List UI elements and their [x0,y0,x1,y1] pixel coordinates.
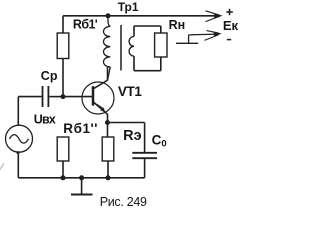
node under Rb1'' [61,175,66,180]
svg-text:Рис. 249: Рис. 249 [100,195,147,209]
svg-text:Ек: Ек [223,18,239,33]
resistor Rb1' (upper base divider) [57,16,69,97]
node top rail / transformer primary junction [106,13,111,18]
node base junction [61,94,66,99]
node emitter junction [105,120,110,125]
svg-text:Rб1': Rб1' [73,18,98,32]
transformer Tr1 primary winding [103,16,110,81]
resistor Rn (load) with loop [134,26,167,71]
node ground stem [79,175,84,180]
capacitor Cp (input coupling) [18,86,63,107]
wire top supply rail [63,15,217,17]
arrow -Ek (bottom supply arrow) [176,31,222,44]
svg-text:Тр1: Тр1 [118,0,139,14]
minus sign - [227,39,231,41]
resistor Re (emitter) [102,123,114,178]
wire bottom rail [18,177,144,179]
transformer core [120,25,122,71]
arrow +Ek (top supply arrow head) [206,11,223,22]
svg-text:Ср: Ср [41,69,58,83]
plus sign + [226,9,233,15]
node under Re [106,175,111,180]
svg-text:Rн: Rн [169,18,186,32]
AC source Uvx (input generator) [6,97,33,178]
capacitor C0 (emitter bypass) [108,123,158,178]
ground [71,178,93,195]
svg-text:Rб1'': Rб1'' [63,121,98,136]
svg-text:С0: С0 [152,132,167,149]
svg-text:Rэ: Rэ [123,128,141,144]
wire base junction to transistor base [63,96,93,98]
svg-text:Uвх: Uвх [34,112,56,126]
resistor Rb1'' (lower base divider) [57,137,69,178]
transformer Tr1 secondary winding [129,26,134,71]
svg-text:VT1: VT1 [118,84,142,99]
scan streak artifact [0,164,4,171]
transistor VT1 [82,66,114,123]
